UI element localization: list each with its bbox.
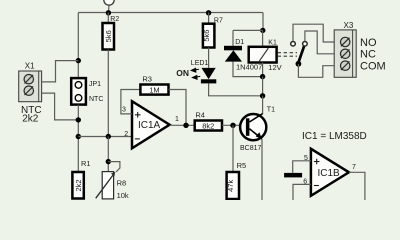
svg-text:3: 3	[122, 107, 126, 114]
wire NO contact to X3	[293, 24, 334, 42]
wire R2 top stem	[107, 13, 109, 24]
node junction R2/R8 column	[106, 134, 111, 139]
wire X1 top screw to JP1 node	[42, 61, 79, 82]
wire NC contact to X3	[305, 31, 334, 54]
trimmer R8 10k	[96, 162, 129, 200]
svg-text:1M: 1M	[149, 85, 159, 94]
svg-text:2k2: 2k2	[22, 114, 39, 125]
wire K1 top stem	[262, 30, 264, 46]
svg-text:R8: R8	[117, 178, 127, 187]
svg-text:D1: D1	[235, 39, 244, 46]
svg-text:K1: K1	[268, 39, 277, 46]
svg-text:IC1 = LM358D: IC1 = LM358D	[302, 131, 367, 142]
wire collector stem	[262, 96, 264, 114]
svg-text:JP1: JP1	[89, 81, 101, 88]
wire R3 right down to output node	[169, 90, 187, 126]
wire R5 stem	[232, 125, 234, 172]
wire K1 bottom stem	[262, 63, 264, 77]
node junction inverting wire left	[76, 134, 81, 139]
relay K1 coil	[249, 39, 282, 72]
relay contact pivot	[296, 61, 302, 67]
screw X1-1	[24, 75, 33, 84]
wire supply stem	[107, 5, 110, 12]
wire LED cathode down and right to collector node	[209, 83, 263, 95]
svg-text:10k: 10k	[117, 191, 129, 200]
svg-text:5k6: 5k6	[104, 30, 113, 42]
diode D1 1N4007	[224, 30, 262, 71]
svg-text:R3: R3	[142, 74, 152, 83]
terminal block X1	[19, 61, 42, 101]
bus stub bar at pin5	[284, 173, 302, 178]
svg-text:ON: ON	[176, 68, 189, 78]
wire output pin1	[170, 124, 195, 126]
wire pin6 down	[293, 184, 311, 200]
svg-text:1: 1	[175, 116, 179, 123]
svg-text:COM: COM	[360, 61, 386, 73]
wire JP1 bottom down	[77, 105, 79, 172]
jumper JP1	[71, 78, 103, 105]
node junction X1-JP1 bottom	[76, 117, 81, 122]
wire COM pivot to X3	[298, 64, 334, 77]
svg-text:5k6: 5k6	[202, 30, 211, 42]
svg-text:7: 7	[352, 164, 356, 171]
transistor T1 BC817	[240, 106, 275, 152]
svg-text:NO: NO	[360, 37, 377, 49]
node junction D1/K1 top	[260, 28, 265, 33]
svg-text:X3: X3	[344, 21, 354, 30]
svg-text:IC1B: IC1B	[318, 168, 341, 179]
wire R7 top stem	[208, 13, 210, 24]
wire down to LED/collector node	[262, 77, 264, 96]
wire pin7 output	[349, 172, 365, 200]
svg-text:BC817: BC817	[240, 145, 262, 152]
node junction R8 top / wiper	[106, 159, 111, 164]
node junction D1-K1 bottom	[260, 74, 265, 79]
resistor R3	[140, 85, 168, 95]
svg-text:R5: R5	[237, 161, 247, 170]
wire inverting input (pin2)	[78, 136, 132, 138]
supply terminal circle (+12V, cut at top)	[104, 0, 114, 5]
svg-text:R1: R1	[81, 159, 91, 168]
wire emitter down	[261, 139, 263, 200]
node junction LED-collector	[260, 93, 265, 98]
wire pin3 loop up to R3	[121, 90, 140, 114]
svg-text:2: 2	[124, 131, 128, 138]
svg-text:X1: X1	[25, 61, 35, 70]
op-amp IC1B	[303, 149, 356, 196]
wire D1 bottom to coil bottom node	[233, 62, 263, 77]
resistor R7	[203, 24, 215, 48]
svg-text:T1: T1	[267, 106, 275, 113]
relay contact fixed NC	[303, 42, 308, 47]
node junction rail to X1/JP1	[76, 58, 81, 63]
relay contact fixed NO	[291, 42, 296, 47]
resistor R5	[227, 172, 239, 199]
node junction rail-R7	[206, 10, 211, 15]
screw X1-2	[24, 86, 33, 95]
svg-text:8k2: 8k2	[202, 121, 214, 130]
wire R7 to LED1	[208, 48, 210, 68]
op-amp IC1A	[122, 101, 179, 148]
LED arrows (emission)	[191, 68, 200, 79]
svg-text:NC: NC	[360, 49, 376, 61]
svg-text:IC1A: IC1A	[138, 120, 161, 131]
relay contact lever	[299, 46, 304, 62]
wire R2 column down to R8	[107, 137, 109, 172]
wire rail bend down to coil node	[262, 13, 264, 31]
svg-text:NTC: NTC	[89, 96, 103, 103]
wire X1 bottom screw to lower node	[42, 93, 79, 120]
svg-text:2k2: 2k2	[74, 179, 83, 191]
wire top +12V rail	[78, 12, 263, 14]
LED LED1	[191, 60, 216, 84]
svg-text:R4: R4	[195, 110, 205, 119]
node junction rail-R2	[106, 10, 111, 15]
svg-text:R7: R7	[214, 17, 223, 24]
mechanical link dashes relay to contact	[278, 53, 297, 57]
terminal block X3	[334, 21, 356, 77]
svg-text:LED1: LED1	[191, 60, 209, 67]
resistor R2	[103, 23, 115, 50]
node junction base/R5	[230, 123, 235, 128]
screw X3-3	[341, 61, 350, 70]
resistor R1	[72, 172, 83, 199]
svg-text:R2: R2	[110, 16, 119, 23]
resistor R4	[195, 121, 222, 131]
svg-text:47k: 47k	[226, 180, 235, 192]
svg-text:1N4007: 1N4007	[236, 62, 262, 71]
wire R4 to base	[222, 124, 246, 126]
wire D1 top link	[233, 29, 263, 31]
wire R2 bottom to inverting input node	[107, 50, 109, 137]
svg-text:12V: 12V	[268, 63, 281, 72]
screw X3-2	[341, 49, 350, 58]
wire pin5 left	[293, 161, 311, 173]
screw X3-1	[341, 37, 350, 46]
node junction output/R3	[183, 123, 188, 128]
wire left vertical from rail to JP1	[77, 13, 79, 79]
